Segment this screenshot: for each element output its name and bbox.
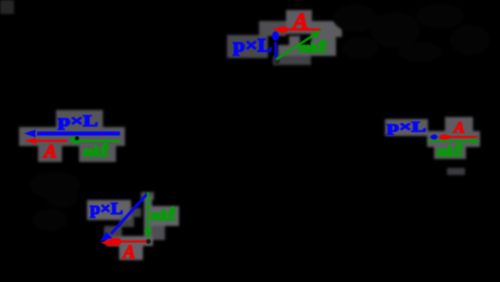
cluster B: label p×L (blue) bbox=[58, 113, 98, 130]
ghost artifacts cluster D (right-middle) bbox=[385, 117, 480, 175]
svg-text:mkÊ: mkÊ bbox=[299, 39, 327, 56]
cluster C: vector mkE (green, down) bbox=[144, 193, 151, 240]
cluster D: label mkE (green) bbox=[437, 143, 463, 160]
cluster C: label p×L (blue) bbox=[90, 199, 123, 218]
svg-text:mkÊ: mkÊ bbox=[151, 207, 176, 224]
cluster B: label mkE (green) bbox=[83, 143, 109, 160]
svg-text:A: A bbox=[43, 142, 57, 163]
cluster B: label A (red) bbox=[43, 142, 57, 163]
cluster C: label A (red) bbox=[122, 243, 135, 263]
cluster D: vector A (red, left) bbox=[439, 135, 478, 140]
ghost artifacts cluster B (left-middle) bbox=[19, 110, 125, 162]
cluster C: vector A (red, left) bbox=[101, 238, 149, 247]
cluster B: vector A (red, left) bbox=[25, 138, 68, 144]
faint residual texture below cluster B bbox=[30, 171, 80, 231]
cluster D: vector mkE (green, right) bbox=[428, 138, 481, 143]
ghost artifact top-left corner bbox=[0, 0, 14, 14]
cluster B: vector mkE (green, pointing left toward pivot) bbox=[69, 137, 120, 144]
cluster D: label p×L (blue) bbox=[387, 120, 426, 136]
svg-text:p×L: p×L bbox=[58, 113, 98, 130]
cluster A: vector A (red, left) bbox=[273, 26, 321, 32]
svg-text:mkÊ: mkÊ bbox=[437, 143, 463, 160]
svg-text:A: A bbox=[453, 120, 465, 137]
svg-text:A: A bbox=[122, 243, 135, 263]
svg-text:p×L: p×L bbox=[233, 37, 272, 57]
cluster A: pivot dot bbox=[274, 59, 280, 65]
svg-text:p×L: p×L bbox=[387, 120, 426, 136]
ghost artifacts cluster A (top-center) bbox=[227, 10, 342, 65]
cluster C: pivot dot bbox=[146, 239, 151, 244]
faint residual texture top-right bbox=[333, 3, 490, 62]
svg-text:p×L: p×L bbox=[90, 199, 123, 218]
cluster A: label p×L (blue) bbox=[233, 37, 272, 57]
cluster A: vector mkE (green, up-right) bbox=[276, 31, 322, 60]
ghost artifacts cluster C (bottom-left) bbox=[87, 192, 179, 260]
cluster D: label A (red) bbox=[453, 120, 465, 137]
cluster A: label A (red) bbox=[291, 9, 308, 34]
cluster A: vector p×L (blue, up) bbox=[272, 31, 279, 59]
cluster A: label mkE (green) bbox=[299, 39, 327, 56]
cluster D: vector p×L (blue, tiny left arrowhead) bbox=[430, 134, 438, 139]
cluster B: vector p×L (blue, long left) bbox=[24, 130, 120, 138]
cluster C: vector p×L (blue, down-left diagonal) bbox=[100, 194, 148, 242]
cluster C: label mkE (green) bbox=[151, 207, 176, 224]
cluster B: pivot dot bbox=[75, 136, 79, 140]
svg-text:A: A bbox=[291, 9, 308, 34]
svg-text:mkÊ: mkÊ bbox=[83, 143, 109, 160]
